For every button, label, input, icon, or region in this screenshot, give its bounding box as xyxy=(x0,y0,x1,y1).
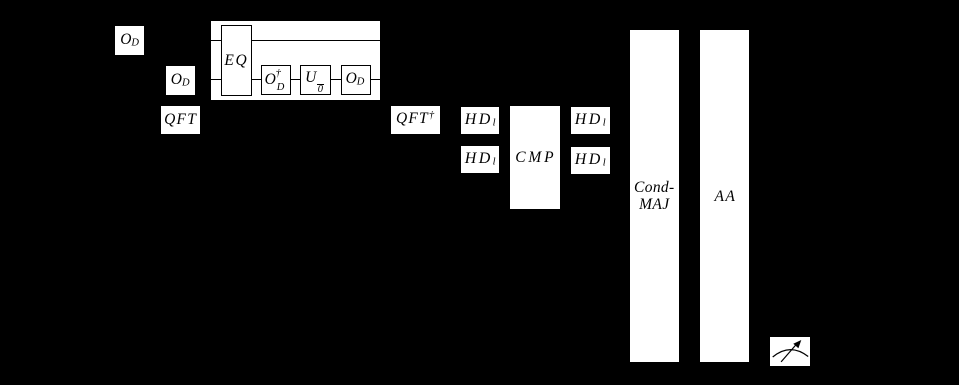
meter arc xyxy=(772,349,807,356)
gate HD_l (col 2, wire 3) xyxy=(571,107,610,134)
meter needle xyxy=(781,343,797,361)
gate QFT-dagger (wire 3) xyxy=(391,106,441,134)
measurement meter xyxy=(770,337,810,366)
gate CMP (spans wires 3-5) xyxy=(510,106,560,209)
gate O_D (wire 2) xyxy=(166,66,195,95)
group box (white background rectangle) xyxy=(211,21,381,100)
wire 1 segment inside group box xyxy=(211,40,381,41)
gate HD_l (col 1, wire 4) xyxy=(461,146,499,173)
gate HD_l (col 2, wire 4) xyxy=(571,147,610,174)
gate Cond-MAJ (spans all wires) xyxy=(630,30,679,362)
gate O_D (wire 2, in group) xyxy=(341,65,371,95)
meter arrowhead xyxy=(793,340,801,348)
gate O_D (wire 1) xyxy=(115,26,144,55)
gate O_D-dagger (wire 2) xyxy=(261,65,291,95)
gate HD_l (col 1, wire 3) xyxy=(461,107,499,134)
gate U_0bar (wire 2) xyxy=(300,65,332,95)
gate AA (spans all wires) xyxy=(700,30,749,362)
wire 2 segment inside group box xyxy=(211,79,381,80)
gate QFT (wire 3) xyxy=(161,106,200,134)
gate EQ (spans wires 1-2) xyxy=(221,25,252,96)
